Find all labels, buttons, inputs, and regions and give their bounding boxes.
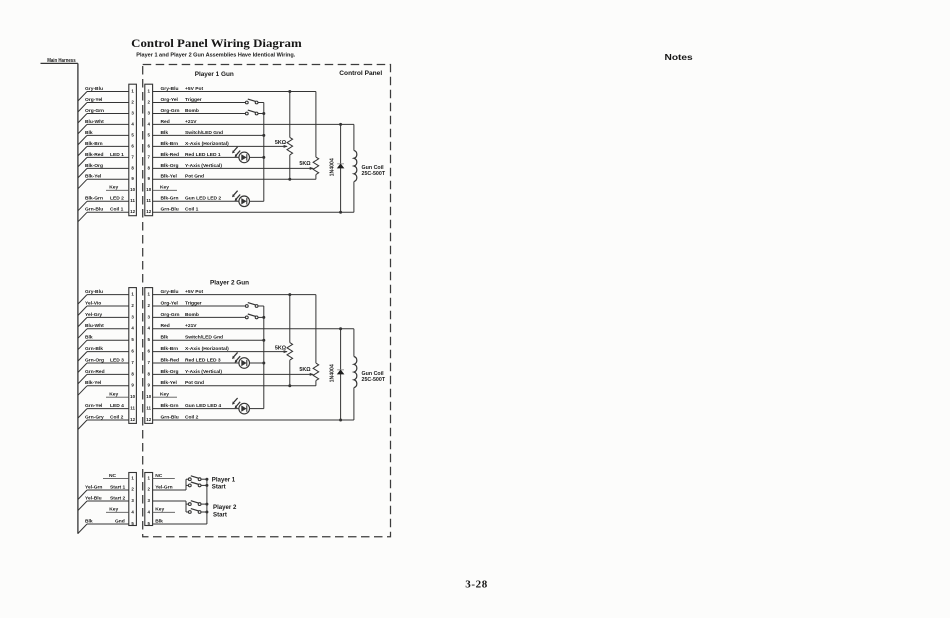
svg-text:Player 2: Player 2 bbox=[213, 504, 237, 511]
P1 harness wire pin 1 Gry-Blu bbox=[78, 86, 129, 101]
svg-text:12: 12 bbox=[130, 417, 135, 422]
svg-text:Blk: Blk bbox=[85, 130, 93, 136]
svg-text:Pot Gnd: Pot Gnd bbox=[185, 380, 204, 386]
svg-text:Grn-Blu: Grn-Blu bbox=[85, 207, 103, 213]
svg-text:10: 10 bbox=[130, 394, 135, 399]
P2 potentiometer R1 5K X-axis bbox=[275, 295, 293, 386]
control panel dashed enclosure bbox=[143, 65, 391, 537]
svg-text:Grn-Gry: Grn-Gry bbox=[85, 414, 104, 420]
P1 Bomb wire (pin 3) bbox=[153, 108, 246, 114]
svg-text:Grn-Yel: Grn-Yel bbox=[85, 403, 103, 409]
P2 harness wire pin 6 Grn-Blk bbox=[78, 346, 129, 361]
svg-text:Org-Grn: Org-Grn bbox=[161, 312, 180, 318]
P1 trigger switch bbox=[245, 99, 263, 104]
svg-text:Org-Grn: Org-Grn bbox=[85, 108, 104, 114]
svg-text:Blk: Blk bbox=[161, 335, 169, 341]
svg-text:Blk: Blk bbox=[85, 518, 93, 524]
P2 harness wire pin 12 Grn-Gry bbox=[78, 414, 129, 429]
svg-text:Blk-Grn: Blk-Grn bbox=[85, 196, 103, 202]
P1 potentiometer R1 5K X-axis bbox=[275, 92, 293, 180]
svg-text:10: 10 bbox=[146, 187, 151, 192]
P1 gun coil L1 25C-500T bbox=[354, 124, 386, 212]
svg-text:Gun Coil: Gun Coil bbox=[362, 165, 385, 171]
J3 wire pin 3 to P2 start bbox=[153, 501, 186, 512]
svg-text:Start: Start bbox=[212, 484, 226, 491]
P1 harness wire pin 2 Org-Yel bbox=[78, 97, 129, 112]
svg-text:Blk: Blk bbox=[161, 130, 169, 136]
svg-text:10: 10 bbox=[146, 394, 151, 399]
svg-text:Red: Red bbox=[161, 323, 170, 329]
P1 harness wire pin 9 Blk-Yel bbox=[78, 174, 129, 189]
svg-text:Org-Yel: Org-Yel bbox=[161, 97, 179, 103]
svg-text:Player 1 Gun: Player 1 Gun bbox=[195, 71, 234, 78]
svg-text:5KΩ: 5KΩ bbox=[299, 161, 311, 167]
P1 harness wire pin 4 Blu-Wht bbox=[78, 119, 129, 134]
P2 +5V Pot wire (pin 1) bbox=[153, 289, 316, 296]
svg-text:Blk-Brn: Blk-Brn bbox=[161, 141, 179, 147]
svg-text:Gnd: Gnd bbox=[115, 518, 125, 524]
svg-text:Main Harness: Main Harness bbox=[47, 58, 76, 64]
svg-text:+21V: +21V bbox=[185, 119, 197, 125]
P2 Pot Gnd wire (pin 9) bbox=[153, 380, 316, 387]
svg-text:Blk-Org: Blk-Org bbox=[161, 163, 179, 169]
svg-text:Y-Axis (Vertical): Y-Axis (Vertical) bbox=[185, 369, 222, 375]
P1 diode 1N4004 bbox=[329, 124, 344, 212]
svg-text:Grn-Red: Grn-Red bbox=[85, 369, 105, 375]
P2 harness wire pin 8 Grn-Red bbox=[78, 369, 129, 384]
svg-text:11: 11 bbox=[130, 198, 135, 203]
P2 Red LED wire (pin 7) bbox=[153, 357, 239, 363]
svg-text:12: 12 bbox=[130, 209, 135, 214]
P1 Coil wire (pin 12) bbox=[153, 207, 354, 214]
svg-text:Key: Key bbox=[160, 392, 169, 398]
P2 diode 1N4004 bbox=[329, 329, 344, 420]
P2 Coil wire (pin 12) bbox=[153, 414, 354, 421]
svg-text:Blk: Blk bbox=[85, 335, 93, 341]
svg-text:Grn-Org: Grn-Org bbox=[85, 357, 104, 363]
svg-text:Pot Gnd: Pot Gnd bbox=[185, 174, 204, 180]
svg-text:Blk-Yel: Blk-Yel bbox=[161, 174, 178, 180]
P1 bomb switch bbox=[245, 110, 265, 115]
svg-text:Trigger: Trigger bbox=[185, 300, 202, 306]
svg-text:25C-500T: 25C-500T bbox=[362, 171, 386, 177]
P2 Gun LED wire (pin 11) bbox=[153, 403, 239, 409]
svg-text:Coil 1: Coil 1 bbox=[110, 207, 124, 213]
svg-text:Blu-Wht: Blu-Wht bbox=[85, 119, 104, 125]
svg-text:Key: Key bbox=[109, 507, 118, 513]
svg-text:Blk-Red: Blk-Red bbox=[85, 152, 103, 158]
svg-text:Yel-Gry: Yel-Gry bbox=[85, 312, 102, 318]
P2 harness wire pin 11 Grn-Yel bbox=[78, 403, 129, 418]
svg-text:Start: Start bbox=[213, 512, 227, 519]
svg-text:Switch/LED Gnd: Switch/LED Gnd bbox=[185, 130, 223, 136]
svg-text:+21V: +21V bbox=[185, 323, 197, 329]
svg-text:Key: Key bbox=[160, 185, 169, 191]
P2 trigger switch bbox=[245, 303, 263, 308]
P1 Gun LED wire (pin 11) bbox=[153, 196, 239, 202]
svg-text:Org-Yel: Org-Yel bbox=[85, 97, 103, 103]
main harness bus bbox=[41, 63, 78, 533]
P1 Red LED wire (pin 7) bbox=[153, 152, 239, 158]
svg-text:11: 11 bbox=[146, 406, 151, 411]
P2 +21V wire (pin 4) bbox=[153, 323, 354, 330]
P1 harness wire pin 7 Blk-Red bbox=[78, 152, 129, 167]
J3 key pin 4 bbox=[153, 507, 175, 513]
svg-text:Blk-Red: Blk-Red bbox=[161, 152, 179, 158]
svg-text:Blk: Blk bbox=[155, 518, 163, 524]
P2 harness wire pin 2 Yel-Vio bbox=[78, 300, 129, 315]
P2 harness wire pin 9 Blk-Yel bbox=[78, 380, 129, 395]
svg-text:11: 11 bbox=[130, 406, 135, 411]
svg-text:5KΩ: 5KΩ bbox=[275, 140, 287, 146]
P1 harness wire pin 12 Grn-Blu bbox=[78, 207, 129, 222]
svg-text:Start 1: Start 1 bbox=[110, 484, 126, 490]
svg-text:Grn-Blu: Grn-Blu bbox=[161, 207, 179, 213]
svg-text:Yel-Grn: Yel-Grn bbox=[155, 484, 172, 490]
svg-text:Trigger: Trigger bbox=[185, 97, 202, 103]
P1 harness wire pin 11 Blk-Grn bbox=[78, 196, 129, 211]
P2 red LED bbox=[232, 352, 265, 368]
J3 harness wire pin 2 Yel-Grn Start 1 bbox=[78, 484, 129, 499]
P2 potentiometer R2 5K Y-axis bbox=[299, 295, 318, 386]
P2 gun coil L1 25C-500T bbox=[354, 329, 386, 420]
svg-text:Gry-Blu: Gry-Blu bbox=[85, 289, 103, 295]
svg-text:Player 1: Player 1 bbox=[212, 476, 236, 483]
svg-text:NC: NC bbox=[109, 473, 117, 479]
svg-text:Key: Key bbox=[155, 507, 164, 513]
svg-text:Coil 2: Coil 2 bbox=[185, 414, 199, 420]
P2 harness key pin 10 bbox=[106, 392, 129, 398]
svg-text:12: 12 bbox=[146, 417, 151, 422]
svg-text:Bomb: Bomb bbox=[185, 108, 199, 114]
P1 harness wire pin 8 Blk-Org bbox=[78, 163, 129, 178]
P2 gun LED bbox=[232, 398, 264, 414]
P1 Pot Gnd wire (pin 9) bbox=[153, 174, 316, 181]
svg-text:Yel-Grn: Yel-Grn bbox=[85, 484, 102, 490]
player 1 start switch pole B bbox=[186, 482, 208, 487]
player 2 start switch pole A bbox=[186, 501, 208, 506]
svg-text:Player 2 Gun: Player 2 Gun bbox=[210, 279, 249, 286]
svg-text:5KΩ: 5KΩ bbox=[275, 345, 287, 351]
P1 red LED bbox=[232, 147, 265, 163]
P1 gun LED bbox=[232, 191, 264, 207]
svg-text:Blk-Brn: Blk-Brn bbox=[161, 346, 179, 352]
svg-text:LED 4: LED 4 bbox=[110, 403, 124, 409]
player 2 start switch pole B bbox=[186, 509, 208, 514]
svg-text:Gun LED LED 4: Gun LED LED 4 bbox=[185, 403, 221, 409]
J3 wire pin 5 Blk ground return bbox=[153, 518, 207, 524]
svg-text:Gry-Blu: Gry-Blu bbox=[161, 289, 179, 295]
P2 Bomb wire (pin 3) bbox=[153, 312, 246, 318]
P2 harness wire pin 5 Blk bbox=[78, 335, 129, 350]
P1 potentiometer R2 5K Y-axis bbox=[299, 92, 318, 180]
P2 Switch/LED Gnd wire (pin 5) bbox=[153, 335, 266, 342]
svg-text:5KΩ: 5KΩ bbox=[299, 367, 311, 373]
svg-text:Bomb: Bomb bbox=[185, 312, 199, 318]
P1 Y-Axis wire (pin 8) bbox=[153, 163, 314, 170]
J3 wire pin 2 Yel-Grn to P1 start bbox=[153, 479, 186, 490]
svg-text:Blk-Yel: Blk-Yel bbox=[161, 380, 178, 386]
svg-text:Notes: Notes bbox=[665, 52, 694, 62]
svg-text:25C-500T: 25C-500T bbox=[362, 377, 386, 383]
P1 harness wire pin 3 Org-Grn bbox=[78, 108, 129, 123]
svg-text:Org-Grn: Org-Grn bbox=[161, 108, 180, 114]
svg-text:Yel-Blu: Yel-Blu bbox=[85, 495, 102, 501]
svg-text:Control Panel: Control Panel bbox=[339, 70, 382, 77]
svg-text:3-28: 3-28 bbox=[465, 578, 488, 590]
svg-text:Player 1 and Player 2 Gun Asse: Player 1 and Player 2 Gun Assemblies Hav… bbox=[136, 53, 295, 59]
connector J1 (P1) with pins 1-12 bbox=[129, 84, 153, 216]
svg-text:Coil 2: Coil 2 bbox=[110, 414, 124, 420]
svg-text:Coil 1: Coil 1 bbox=[185, 207, 199, 213]
svg-text:Blk-Grn: Blk-Grn bbox=[161, 196, 179, 202]
P1 +5V Pot wire (pin 1) bbox=[153, 86, 316, 93]
P2 key pin 10 bbox=[153, 392, 177, 398]
start switches common bus bbox=[206, 479, 208, 524]
P1 harness key pin 10 bbox=[106, 185, 129, 191]
P1 key pin 10 bbox=[153, 185, 177, 191]
svg-text:LED 2: LED 2 bbox=[110, 196, 124, 202]
P1 harness wire pin 6 Blk-Brn bbox=[78, 141, 129, 156]
svg-text:Blk-Org: Blk-Org bbox=[85, 163, 103, 169]
svg-text:Red: Red bbox=[161, 119, 170, 125]
svg-text:12: 12 bbox=[146, 209, 151, 214]
svg-text:1N4004: 1N4004 bbox=[329, 364, 335, 382]
svg-text:NC: NC bbox=[155, 473, 163, 479]
svg-text:Gry-Blu: Gry-Blu bbox=[161, 86, 179, 92]
P2 harness wire pin 1 Gry-Blu bbox=[78, 289, 129, 304]
svg-text:Blk-Org: Blk-Org bbox=[161, 369, 179, 375]
player 1 start switch pole A bbox=[186, 476, 208, 481]
svg-text:Grn-Blu: Grn-Blu bbox=[161, 414, 179, 420]
svg-text:10: 10 bbox=[130, 187, 135, 192]
svg-text:Blk-Red: Blk-Red bbox=[161, 357, 179, 363]
J3 harness key pin 4 bbox=[106, 507, 129, 513]
J3 harness wire pin 5 Blk Gnd bbox=[78, 518, 129, 533]
svg-text:+5V Pot: +5V Pot bbox=[185, 86, 203, 92]
svg-text:Blk-Grn: Blk-Grn bbox=[161, 403, 179, 409]
P2 harness wire pin 4 Blu-Wht bbox=[78, 323, 129, 338]
P2 switch/LED ground bus bbox=[263, 306, 265, 409]
P1 harness wire pin 5 Blk bbox=[78, 130, 129, 145]
svg-text:Key: Key bbox=[109, 185, 118, 191]
J3 NC stub pin 1 bbox=[153, 473, 175, 479]
svg-text:Switch/LED Gnd: Switch/LED Gnd bbox=[185, 335, 223, 341]
P1 Switch/LED Gnd wire (pin 5) bbox=[153, 130, 266, 137]
P1 +21V wire (pin 4) bbox=[153, 119, 354, 126]
svg-text:X-Axis (Horizontal): X-Axis (Horizontal) bbox=[185, 346, 229, 352]
Player 1 Start label bbox=[212, 476, 236, 490]
P2 X-Axis wire (pin 6) bbox=[153, 346, 288, 353]
P2 Trigger wire (pin 2) bbox=[153, 300, 246, 306]
svg-text:Yel-Vio: Yel-Vio bbox=[85, 300, 101, 306]
svg-text:+5V Pot: +5V Pot bbox=[185, 289, 203, 295]
svg-text:LED 1: LED 1 bbox=[110, 152, 124, 158]
svg-text:Gry-Blu: Gry-Blu bbox=[85, 86, 103, 92]
connector J2 (P2) with pins 1-12 bbox=[129, 288, 153, 424]
P1 switch/LED ground bus bbox=[263, 103, 265, 202]
svg-text:Org-Yel: Org-Yel bbox=[161, 300, 179, 306]
svg-text:Y-Axis (Vertical): Y-Axis (Vertical) bbox=[185, 163, 222, 169]
svg-text:Start 2: Start 2 bbox=[110, 495, 126, 501]
svg-text:Gun Coil: Gun Coil bbox=[362, 371, 385, 377]
svg-text:LED 3: LED 3 bbox=[110, 357, 124, 363]
svg-text:1N4004: 1N4004 bbox=[329, 158, 335, 176]
P2 Y-Axis wire (pin 8) bbox=[153, 369, 314, 376]
svg-text:Red LED LED 3: Red LED LED 3 bbox=[185, 357, 221, 363]
svg-text:Gun LED LED 2: Gun LED LED 2 bbox=[185, 196, 221, 202]
Player 2 Start label bbox=[213, 504, 237, 518]
P1 Trigger wire (pin 2) bbox=[153, 97, 246, 103]
P1 X-Axis wire (pin 6) bbox=[153, 141, 288, 148]
J3 harness wire pin 3 Yel-Blu Start 2 bbox=[78, 495, 129, 510]
P2 bomb switch bbox=[245, 314, 265, 319]
svg-text:Control Panel Wiring Diagram: Control Panel Wiring Diagram bbox=[131, 36, 302, 50]
svg-text:Grn-Blk: Grn-Blk bbox=[85, 346, 103, 352]
P2 harness wire pin 7 Grn-Org bbox=[78, 357, 129, 372]
svg-text:Blk-Brn: Blk-Brn bbox=[85, 141, 103, 147]
svg-text:X-Axis (Horizontal): X-Axis (Horizontal) bbox=[185, 141, 229, 147]
svg-text:Red LED LED 1: Red LED LED 1 bbox=[185, 152, 221, 158]
svg-text:Blk-Yel: Blk-Yel bbox=[85, 174, 102, 180]
svg-text:Blk-Yel: Blk-Yel bbox=[85, 380, 102, 386]
svg-text:11: 11 bbox=[146, 198, 151, 203]
connector J3 (start buttons) pins 1-5 bbox=[129, 473, 153, 526]
J3 harness NC stub pin 1 bbox=[103, 473, 129, 479]
P2 harness wire pin 3 Yel-Gry bbox=[78, 312, 129, 327]
svg-text:Key: Key bbox=[109, 392, 118, 398]
svg-text:Blu-Wht: Blu-Wht bbox=[85, 323, 104, 329]
